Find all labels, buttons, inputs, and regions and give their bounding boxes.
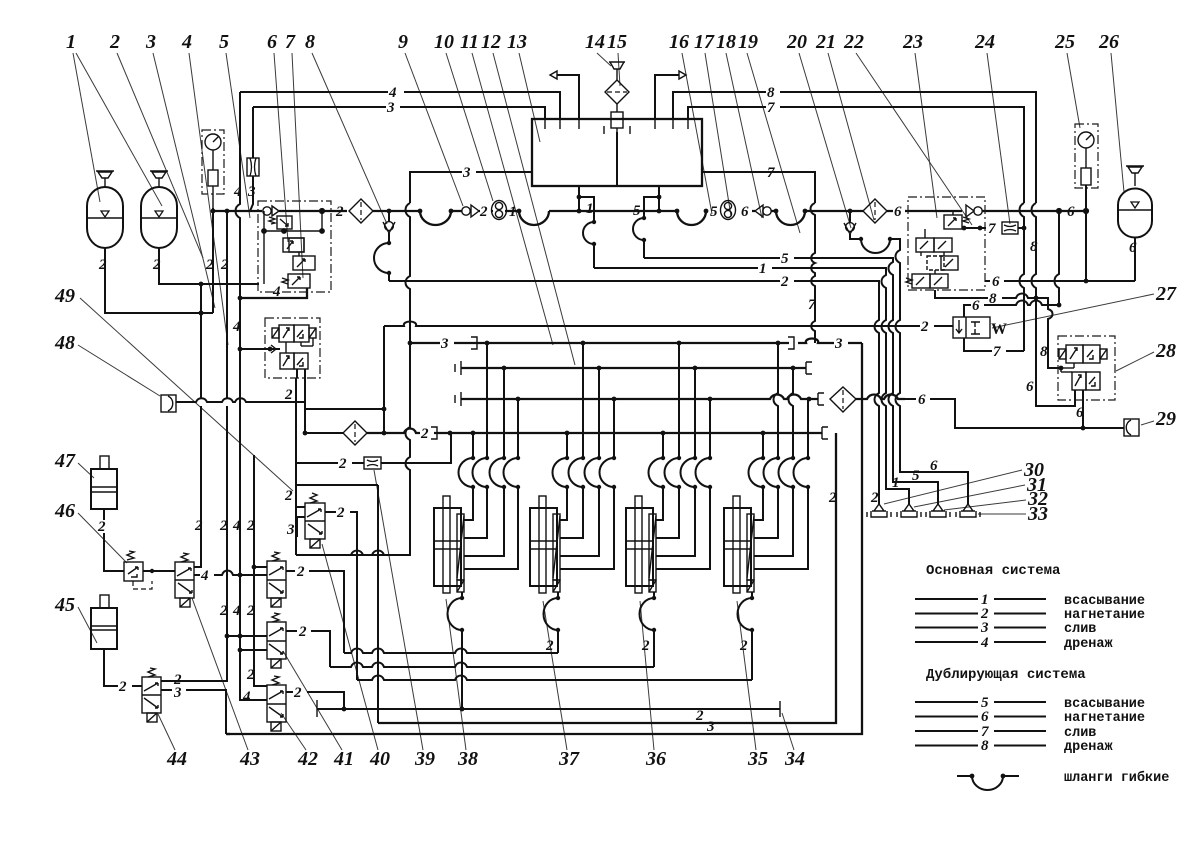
- svg-text:46: 46: [54, 500, 75, 522]
- svg-text:5: 5: [710, 204, 718, 220]
- bus to group4 bottom: [357, 676, 752, 681]
- svg-text:24: 24: [974, 31, 995, 53]
- svg-text:43: 43: [239, 748, 260, 770]
- svg-text:9: 9: [398, 31, 408, 53]
- svg-text:4: 4: [200, 568, 209, 584]
- valve 42 (middle of stack): [227, 613, 330, 668]
- block 2 dash-dot enclosure (pos.49 area): [265, 318, 320, 378]
- legend line 6: [915, 709, 1145, 726]
- svg-text:2: 2: [695, 708, 704, 724]
- svg-text:7: 7: [767, 165, 775, 181]
- svg-text:8: 8: [305, 31, 315, 53]
- svg-text:35: 35: [747, 748, 768, 770]
- valves in block 5/6: [264, 231, 315, 288]
- tank vent arrow left: [557, 75, 579, 119]
- wire 2 to switch 27: [384, 319, 953, 335]
- cylinder 45: [91, 595, 142, 695]
- svg-text:3: 3: [286, 522, 295, 538]
- suction riser 5 from tank right port: [633, 186, 661, 258]
- valve 41 (top of stack): [267, 552, 344, 653]
- svg-text:5: 5: [781, 251, 789, 267]
- svg-text:22: 22: [843, 31, 864, 53]
- svg-text:4: 4: [980, 635, 989, 651]
- wire 2(acc) line into block: [227, 283, 259, 285]
- actuator group 4 (pos.35): [724, 496, 754, 593]
- group 3 bottom hose: [640, 592, 657, 667]
- wire 3 return to tank left wall: [410, 165, 532, 203]
- svg-text:слив: слив: [1064, 622, 1096, 637]
- svg-text:3: 3: [247, 184, 256, 200]
- svg-text:всасывание: всасывание: [1064, 594, 1145, 609]
- svg-text:2: 2: [284, 387, 293, 403]
- wire 7 backup return vertical: [808, 203, 816, 343]
- vertical line 3 left: [250, 107, 253, 211]
- tank (reservoir, pos.13): [532, 112, 702, 186]
- svg-text:39: 39: [414, 748, 435, 770]
- svg-text:37: 37: [558, 748, 580, 770]
- svg-text:W: W: [991, 321, 1007, 338]
- group 2 supply drops: [553, 343, 617, 569]
- svg-text:Основная система: Основная система: [926, 563, 1061, 579]
- left plug terminals: [0, 0, 1, 1]
- svg-text:всасывание: всасывание: [1064, 697, 1145, 712]
- wire 6 from block 28 down: [1076, 390, 1085, 430]
- pressure regulator 46: [124, 551, 175, 589]
- svg-text:7: 7: [988, 221, 996, 237]
- filter 22: [863, 199, 887, 223]
- svg-text:2: 2: [118, 679, 127, 695]
- block 5/6 dash-dot enclosure: [258, 201, 331, 292]
- svg-text:2: 2: [246, 518, 255, 534]
- wire 7 from block 23 to restrictor 24: [962, 221, 996, 237]
- wire 6 riser to block 28: [1026, 298, 1075, 406]
- legend line 3: [915, 620, 1096, 637]
- tank internal stubs: [545, 119, 688, 129]
- relief valve in block 5: [262, 211, 324, 233]
- wire 1 suction to drain 31: [594, 261, 909, 504]
- wire 6 backup pressure bus: [985, 274, 1135, 290]
- hose after pump 10: [517, 209, 579, 225]
- bus B (line 3 brake): [455, 361, 812, 375]
- svg-text:2: 2: [298, 624, 307, 640]
- restrictor 39 branch: [296, 433, 451, 472]
- svg-text:2: 2: [194, 518, 203, 534]
- drain 32: [926, 504, 950, 517]
- drain 31: [897, 504, 921, 517]
- svg-text:47: 47: [54, 450, 76, 472]
- group 1 supply drops: [459, 343, 521, 569]
- wire 3 top (drain to tank): [253, 100, 545, 119]
- wire 3 right vertical to bottom bus: [227, 343, 862, 734]
- svg-text:2: 2: [920, 319, 929, 335]
- accumulator 2: [141, 171, 177, 248]
- wire 3 from valve 44 to bottom bus: [161, 685, 230, 734]
- check valve 9: [462, 205, 480, 217]
- svg-text:1: 1: [509, 204, 517, 220]
- svg-text:7: 7: [993, 344, 1001, 360]
- svg-text:1: 1: [586, 201, 594, 217]
- check valve 20a before block 23: [966, 205, 1088, 217]
- tank vent arrow right: [655, 75, 679, 119]
- wire 4 drain through block bottom: [238, 284, 307, 300]
- svg-text:6: 6: [930, 458, 938, 474]
- vertical line 2 (acc2 to valves): [161, 211, 229, 681]
- wire 7 vertical right: [1020, 203, 1039, 351]
- wire 6 long line to coupling 29: [905, 392, 1124, 428]
- svg-text:5: 5: [633, 203, 641, 219]
- accumulator 1: [87, 171, 123, 248]
- svg-text:2: 2: [293, 685, 302, 701]
- wire 7 top right: [688, 100, 1024, 203]
- wire 2 long line to drain 30: [389, 274, 879, 506]
- svg-text:6: 6: [992, 274, 1000, 290]
- svg-text:2: 2: [296, 564, 305, 580]
- bus to group2 bottom: [344, 649, 558, 654]
- svg-text:2: 2: [780, 274, 789, 290]
- svg-text:7: 7: [285, 31, 296, 53]
- group 3 supply drops: [649, 343, 713, 569]
- actuator group 3 (pos.36): [626, 496, 656, 593]
- pump 10 (main): [492, 201, 520, 220]
- svg-text:2: 2: [338, 456, 347, 472]
- cylinder 47: [91, 456, 124, 571]
- svg-text:6: 6: [1067, 204, 1075, 220]
- svg-text:14: 14: [585, 31, 605, 53]
- svg-text:3: 3: [980, 620, 989, 636]
- node acc junctions: [199, 311, 204, 316]
- svg-text:нагнетание: нагнетание: [1064, 608, 1145, 623]
- valves inside block 23: [906, 211, 969, 288]
- svg-text:44: 44: [166, 748, 187, 770]
- svg-text:45: 45: [54, 594, 75, 616]
- svg-text:2: 2: [739, 638, 748, 654]
- wire 2 from valve 44: [161, 672, 227, 688]
- svg-text:2: 2: [479, 204, 488, 220]
- suction riser 1 from tank left port: [577, 186, 597, 268]
- breather funnel 14: [609, 62, 625, 80]
- svg-text:42: 42: [297, 748, 318, 770]
- svg-text:2: 2: [420, 426, 429, 442]
- svg-text:41: 41: [333, 748, 354, 770]
- valve C (bottom of stack): [267, 676, 344, 731]
- svg-text:2: 2: [219, 603, 228, 619]
- block 28 dash-dot enclosure: [1058, 336, 1115, 400]
- svg-text:2: 2: [336, 505, 345, 521]
- wire accumulator 2 to line 2: [152, 248, 227, 284]
- svg-text:4: 4: [232, 518, 241, 534]
- pressure gauge 25: [1075, 124, 1098, 281]
- svg-text:1: 1: [66, 31, 76, 53]
- wire 8 vertical right: [1032, 203, 1037, 298]
- svg-text:6: 6: [981, 709, 989, 725]
- legend hose symbol: [957, 770, 1169, 790]
- wires from block 2 down: [297, 369, 305, 378]
- svg-text:4: 4: [232, 603, 241, 619]
- svg-text:2: 2: [246, 603, 255, 619]
- svg-text:6: 6: [1076, 405, 1084, 421]
- svg-text:2: 2: [152, 257, 161, 273]
- wire 7 from switch 27: [964, 338, 1024, 360]
- svg-text:3: 3: [145, 31, 156, 53]
- svg-text:6: 6: [741, 204, 749, 220]
- svg-text:6: 6: [918, 392, 926, 408]
- svg-text:2: 2: [219, 518, 228, 534]
- svg-text:23: 23: [902, 31, 923, 53]
- check valve 8 branch with hose: [374, 211, 395, 281]
- svg-text:3: 3: [173, 685, 182, 701]
- bus 3 manifold (line A): [410, 336, 862, 352]
- svg-text:3: 3: [706, 719, 715, 735]
- svg-text:4: 4: [388, 85, 397, 101]
- svg-text:17: 17: [694, 31, 715, 53]
- svg-text:4: 4: [272, 284, 281, 300]
- pressure gauge 3 with damper: [202, 130, 224, 313]
- svg-text:2: 2: [109, 31, 120, 53]
- bus D (line 2): [367, 426, 828, 442]
- main bus line 2 (left section): [211, 209, 262, 214]
- actuator group 2 (pos.37): [530, 496, 560, 593]
- svg-text:2: 2: [284, 488, 293, 504]
- legend line 4: [915, 635, 1114, 652]
- wire 5 suction to drain 32: [644, 251, 938, 504]
- svg-text:дренаж: дренаж: [1064, 740, 1114, 755]
- svg-text:16: 16: [669, 31, 689, 53]
- valves inside block 2: [271, 325, 316, 369]
- callout numbers 1-26 top row: [66, 31, 1119, 53]
- svg-text:33: 33: [1027, 503, 1048, 525]
- wire 2 right vertical to bottom: [378, 433, 837, 724]
- svg-text:2: 2: [870, 490, 879, 506]
- svg-text:7: 7: [767, 100, 775, 116]
- pressure switch 27: [953, 317, 1007, 338]
- svg-text:5: 5: [219, 31, 229, 53]
- drain 30: [867, 504, 891, 517]
- svg-text:19: 19: [738, 31, 758, 53]
- wire 8 drain from block 23: [935, 290, 1063, 370]
- filter 21 on main bus: [335, 199, 373, 223]
- svg-text:2: 2: [97, 519, 106, 535]
- svg-text:6: 6: [267, 31, 277, 53]
- pump 17 (backup): [721, 201, 736, 220]
- valve 43: [175, 553, 194, 607]
- svg-text:28: 28: [1155, 340, 1176, 362]
- legend line 8: [915, 738, 1114, 755]
- valves inside block 28: [1059, 345, 1107, 390]
- svg-text:6: 6: [894, 204, 902, 220]
- group 2 bottom hose: [544, 592, 561, 654]
- svg-text:26: 26: [1098, 31, 1119, 53]
- group 4 bottom hose: [738, 592, 755, 680]
- wire 4 into block 2: [238, 347, 280, 352]
- svg-text:6: 6: [972, 298, 980, 314]
- hose after pump 17: [774, 209, 863, 225]
- check valve in block 5: [263, 206, 347, 216]
- svg-text:2: 2: [641, 638, 650, 654]
- svg-text:2: 2: [545, 638, 554, 654]
- svg-text:слив: слив: [1064, 726, 1096, 741]
- svg-text:13: 13: [507, 31, 527, 53]
- accumulator 26: [1118, 166, 1152, 281]
- valve 40: [284, 488, 357, 680]
- wire 8 top right: [673, 85, 1036, 203]
- svg-text:3: 3: [440, 336, 449, 352]
- wire 4 from valve 43: [194, 565, 267, 584]
- svg-text:25: 25: [1054, 31, 1075, 53]
- legend line 5: [915, 695, 1145, 712]
- hose before pump 17: [659, 209, 708, 225]
- svg-text:18: 18: [716, 31, 736, 53]
- svg-text:3: 3: [386, 100, 395, 116]
- valve 40 loop wiring: [284, 378, 410, 723]
- check valve 20 branch with hose to drain 33: [844, 211, 968, 504]
- svg-text:34: 34: [784, 748, 805, 770]
- coupling 48: [161, 395, 176, 412]
- svg-text:Дублирующая система: Дублирующая система: [926, 667, 1086, 683]
- svg-text:15: 15: [607, 31, 627, 53]
- legend line 1: [915, 592, 1145, 609]
- svg-text:нагнетание: нагнетание: [1064, 711, 1145, 726]
- bus line 2 with end plugs: [317, 700, 780, 717]
- svg-text:4: 4: [181, 31, 192, 53]
- vertical line 4 left: [232, 92, 267, 705]
- drain 33: [956, 504, 980, 517]
- bus C (line 6): [455, 392, 824, 406]
- svg-text:8: 8: [981, 738, 989, 754]
- svg-text:5: 5: [912, 468, 920, 484]
- vertical line 2 (to valve 43): [194, 284, 203, 567]
- wire 3 vertical from tank return: [297, 203, 412, 555]
- svg-text:12: 12: [481, 31, 501, 53]
- bus under tank: [579, 210, 659, 212]
- wire 6 pilot to valve 27: [964, 211, 1061, 317]
- bus to group3 bottom: [330, 663, 654, 668]
- valve 44: [142, 668, 161, 722]
- svg-text:7: 7: [808, 297, 816, 313]
- group 1 bottom hose: [448, 592, 465, 711]
- svg-text:1: 1: [759, 261, 767, 277]
- breather filter 15: [605, 80, 629, 112]
- svg-text:21: 21: [815, 31, 836, 53]
- svg-text:29: 29: [1155, 408, 1176, 430]
- filter 20 on line 6: [830, 387, 905, 412]
- svg-text:20: 20: [786, 31, 807, 53]
- svg-text:2: 2: [98, 257, 107, 273]
- svg-text:4: 4: [242, 689, 251, 705]
- svg-text:48: 48: [54, 332, 75, 354]
- leader lines for callouts 1-26: [73, 53, 1124, 365]
- group 4 supply drops: [749, 343, 811, 569]
- wire 7 return from tank right wall: [702, 165, 815, 203]
- svg-text:шланги гибкие: шланги гибкие: [1064, 770, 1169, 786]
- restrictor 4 on line 3: [247, 158, 259, 176]
- wire 4 top (drain to tank): [240, 85, 560, 119]
- svg-text:8: 8: [1040, 344, 1048, 360]
- actuator group 1 (pos.38): [434, 496, 464, 593]
- svg-text:4: 4: [232, 319, 241, 335]
- svg-text:3: 3: [462, 165, 471, 181]
- svg-text:36: 36: [645, 748, 666, 770]
- svg-text:2: 2: [246, 667, 255, 683]
- vertical line 2 (to valve C): [246, 455, 267, 686]
- svg-text:2: 2: [828, 490, 837, 506]
- svg-text:11: 11: [460, 31, 479, 53]
- svg-text:8: 8: [767, 85, 775, 101]
- wire accumulator 1 to line 2: [98, 248, 213, 313]
- coupling 29: [1124, 419, 1139, 436]
- svg-text:3: 3: [834, 336, 843, 352]
- svg-text:дренаж: дренаж: [1064, 637, 1114, 652]
- svg-text:6: 6: [1129, 240, 1137, 256]
- block 23 dash-dot enclosure: [908, 197, 985, 290]
- svg-text:38: 38: [457, 748, 478, 770]
- svg-text:40: 40: [369, 748, 390, 770]
- check valve 18: [752, 205, 776, 217]
- coupling bus from 48: [176, 326, 386, 433]
- main bus filter to pump: [373, 209, 462, 225]
- svg-text:10: 10: [434, 31, 454, 53]
- legend line 7: [915, 724, 1096, 741]
- legend line 2: [915, 606, 1145, 623]
- restrictor 24: [1002, 222, 1026, 234]
- filter 19 on bus D: [303, 421, 367, 445]
- svg-text:2: 2: [335, 204, 344, 220]
- svg-text:27: 27: [1155, 283, 1177, 305]
- svg-text:6: 6: [1026, 379, 1034, 395]
- svg-text:49: 49: [54, 285, 75, 307]
